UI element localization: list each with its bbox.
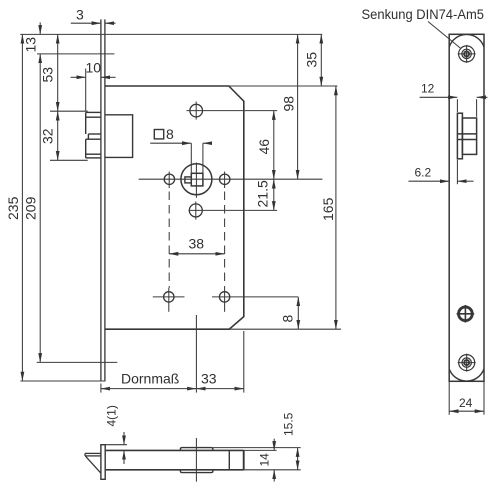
extension line latch top y=111.2: [50, 110, 88, 112]
dimension 53 line: [57, 34, 59, 111]
dimension 209 / 13 shared line: [39, 22, 41, 34]
svg-text:4(1): 4(1): [105, 405, 119, 426]
dimension 3 (plate thickness): [71, 22, 101, 24]
bottom view: nut axis centerline: [195, 438, 197, 482]
svg-text:53: 53: [40, 67, 56, 83]
extension line bottom screw level y=362.4: [37, 361, 118, 363]
horizontal centerline through nut: [139, 178, 323, 180]
svg-text:21.5: 21.5: [255, 180, 271, 207]
dornmass dimension line: [101, 388, 110, 390]
dimension 8 (holes to case bottom): [297, 297, 299, 329]
dimension 21.5: [273, 179, 275, 210]
svg-text:35: 35: [304, 52, 320, 68]
extension line screw hole level y=53.9: [37, 53, 114, 55]
svg-text:46: 46: [256, 139, 272, 155]
bottom left hole: [164, 292, 174, 302]
svg-text:33: 33: [201, 371, 217, 387]
svg-text:165: 165: [320, 197, 336, 221]
dimension 46: [273, 111, 275, 180]
svg-text:13: 13: [23, 37, 39, 53]
svg-text:14: 14: [258, 453, 272, 467]
bottom view: inner wall: [228, 450, 230, 469]
bottom view: case outline: [105, 450, 244, 469]
dimension 10 (latch projection): [85, 69, 87, 112]
dim 14: [273, 439, 275, 451]
dashed centerline left: [168, 172, 170, 189]
top countersunk screw hole: [458, 45, 476, 63]
svg-text:8: 8: [166, 126, 174, 142]
svg-text:6.2: 6.2: [415, 166, 432, 180]
dimension 32 line: [57, 111, 59, 160]
top hole: [190, 104, 203, 117]
extension case top to right: [229, 85, 338, 87]
faceplate front view (right): [449, 34, 484, 381]
latch body inside case: [105, 115, 133, 158]
ext case top to 14 dim: [244, 449, 277, 451]
label square-8 symbol: [154, 130, 163, 139]
dimension 235 line: [21, 34, 23, 381]
svg-text:10: 10: [86, 60, 102, 76]
square 8 dim: label underline + arrows: [150, 142, 183, 144]
8mm square spindle hole: [191, 173, 203, 186]
svg-text:38: 38: [189, 236, 205, 252]
nut vertical centerline dash: [195, 163, 197, 198]
dim 24: [448, 381, 450, 415]
top rounded end arc: [449, 34, 484, 47]
svg-text:8: 8: [280, 315, 296, 323]
bottom view: nut boss top: [180, 448, 213, 451]
extension + dimension thin lines: [20, 22, 341, 392]
lower middle hole: [189, 204, 202, 217]
svg-text:Senkung DIN74-Am5: Senkung DIN74-Am5: [362, 7, 485, 22]
svg-text:15.5: 15.5: [282, 412, 296, 436]
right side circle: [220, 174, 230, 184]
dimension 38: [169, 253, 225, 255]
follower nut circle: [181, 164, 212, 195]
bottom view: faceplate cross section: [101, 445, 105, 480]
bottom view: latch head bevel: [85, 453, 101, 473]
dim 12: [456, 99, 458, 112]
extension line plate bottom y=381: [20, 380, 105, 382]
middle threaded hole: [457, 305, 475, 323]
left side circle: [164, 174, 174, 184]
latch bolt side view: [86, 112, 101, 157]
dashed centerline right: [224, 172, 226, 189]
svg-text:235: 235: [5, 196, 21, 220]
bottom countersunk screw hole: [458, 354, 476, 372]
dimension 165: [335, 86, 337, 329]
dim 4(1): [123, 432, 125, 445]
svg-text:24: 24: [459, 396, 473, 410]
bottom rounded end arc: [449, 369, 484, 381]
nut left notch: [185, 177, 191, 183]
svg-text:3: 3: [76, 7, 84, 23]
ext case bottom: [244, 469, 301, 471]
ext boss top to 15.5 dim: [213, 447, 301, 449]
top horizontal extension line (plate top): [20, 33, 322, 35]
svg-text:12: 12: [421, 82, 435, 96]
bottom view: nut boss bottom: [180, 470, 213, 473]
top hole centerlines: [187, 102, 278, 120]
extension case bottom to right: [229, 328, 341, 330]
right view dimensions: [409, 97, 488, 415]
bottom holes centerlines: [153, 288, 298, 312]
extension line latch bottom y=160.3: [50, 159, 88, 161]
svg-text:Dornmaß: Dornmaß: [121, 371, 179, 387]
svg-text:32: 32: [40, 128, 56, 144]
lock case outline (side view): [105, 86, 244, 329]
dornmass extension lines: [100, 384, 102, 393]
lower middle hole centerlines: [189, 202, 278, 220]
dim 15.5: [297, 448, 299, 470]
leader line Senkung: [428, 22, 461, 49]
svg-text:209: 209: [23, 196, 39, 220]
dim 6.2: [456, 160, 458, 184]
dimension 98: [297, 34, 299, 179]
bottom right hole: [219, 292, 229, 302]
dimension 35: [320, 34, 322, 86]
svg-text:98: 98: [281, 96, 297, 112]
latch front view: [457, 113, 476, 159]
ext plate top: [101, 444, 127, 446]
bottom view dimensions: [101, 432, 301, 482]
faceplate side view (vertical strip, 3mm): [101, 19, 105, 381]
